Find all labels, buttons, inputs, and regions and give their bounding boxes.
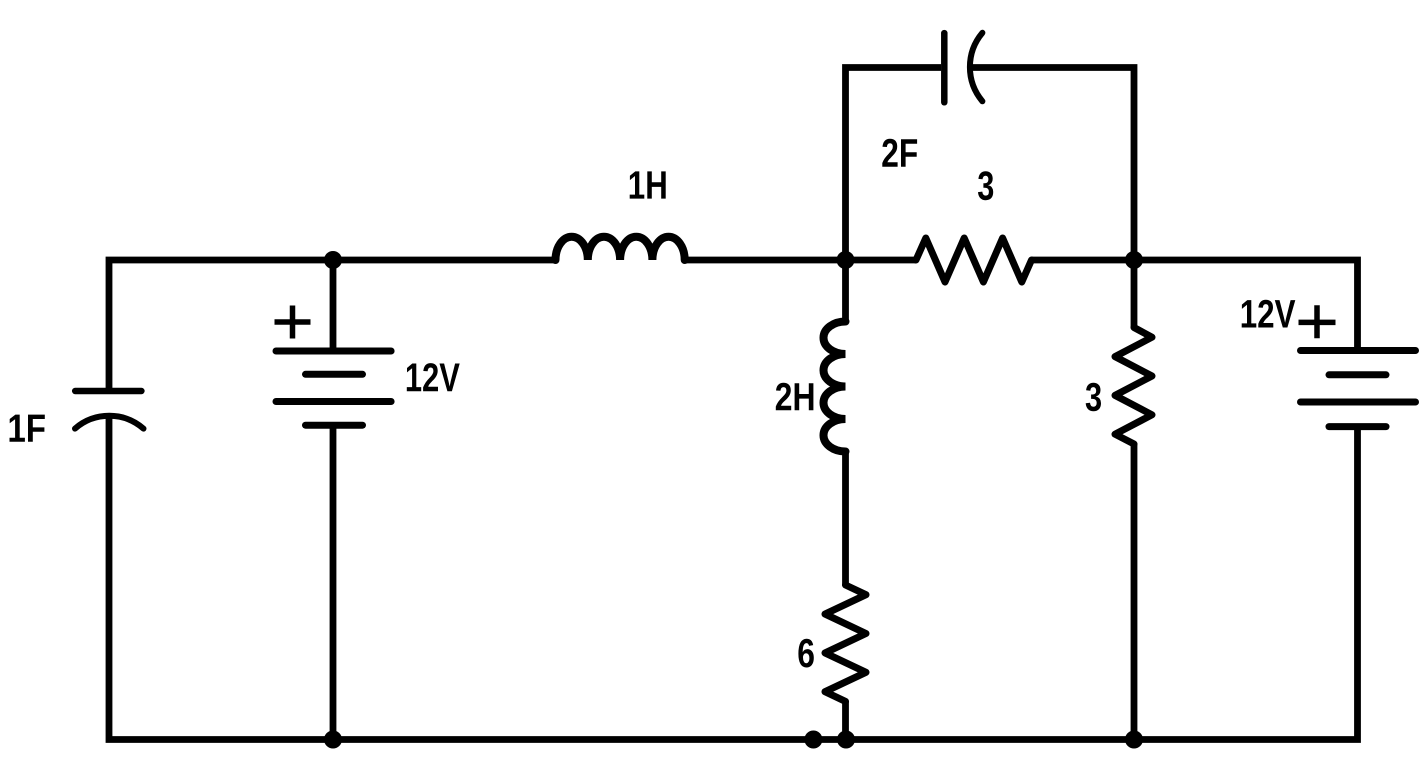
wire top loop right + drop to right node <box>970 68 1134 261</box>
node dot middle top <box>837 251 855 269</box>
wire top rail between inductor and resistor <box>685 257 916 264</box>
wire 6-ohm resistor to bottom rail <box>842 701 849 739</box>
resistor 3 vertical value label 3 <box>1086 383 1101 412</box>
battery V1 long plate lower <box>276 398 391 405</box>
inductor 1H value label 1H <box>630 171 666 198</box>
wire bottom rail with left and right risers <box>109 416 1358 740</box>
battery V2 plus sign <box>1299 305 1336 338</box>
node dot resistor 6 bottom <box>837 731 855 749</box>
wire right node to 3-ohm resistor <box>1131 260 1138 328</box>
wire left rail top (1F branch top corner to inductor) <box>109 260 556 389</box>
capacitor 2F curved plate <box>970 33 982 102</box>
battery V2 value label 12V <box>1242 300 1296 328</box>
battery V2 long plate top <box>1301 347 1416 354</box>
wire middle node to 2H inductor <box>842 260 849 322</box>
battery V2 short plate bottom <box>1329 423 1386 430</box>
wire left battery bottom lead <box>330 425 337 740</box>
node dot left battery top <box>324 251 342 269</box>
node dot left battery bottom <box>324 731 342 749</box>
wire middle branch up + top loop left <box>846 68 942 261</box>
inductor 1H <box>556 237 685 260</box>
resistor 6 vertical <box>825 585 866 701</box>
wire 2H inductor to 6-ohm resistor <box>842 452 849 586</box>
node dot right top <box>1125 251 1143 269</box>
resistor 3 vertical <box>1115 328 1152 445</box>
wire 3-ohm resistor to bottom rail <box>1131 444 1138 740</box>
battery V1 long plate top <box>276 348 391 355</box>
capacitor 2F value label 2F <box>882 139 917 167</box>
battery V1 short plate upper <box>306 371 363 378</box>
resistor 3 horizontal value label 3 <box>978 171 993 200</box>
battery V1 plus sign <box>275 306 311 339</box>
wire left battery top lead <box>330 260 337 351</box>
inductor 2H <box>824 322 846 452</box>
capacitor 2F flat plate <box>941 33 948 102</box>
resistor 3 horizontal <box>916 238 1032 282</box>
capacitor 1F flat plate <box>75 388 141 395</box>
wire top rail right + far-right drop to battery <box>1032 260 1358 351</box>
inductor 2H value label 2H <box>776 383 814 410</box>
battery V2 long plate lower <box>1301 399 1416 406</box>
battery V1 value label 12V <box>407 363 460 391</box>
node dot right branch bottom <box>1125 731 1143 749</box>
capacitor 1F curved plate <box>75 416 144 429</box>
battery V1 short plate bottom <box>306 422 363 429</box>
battery V2 short plate upper <box>1329 371 1386 378</box>
node dot bottom rail left of resistor 6 <box>804 731 822 749</box>
capacitor 1F value label 1F <box>10 415 45 442</box>
resistor 6 value label 6 <box>798 639 813 668</box>
